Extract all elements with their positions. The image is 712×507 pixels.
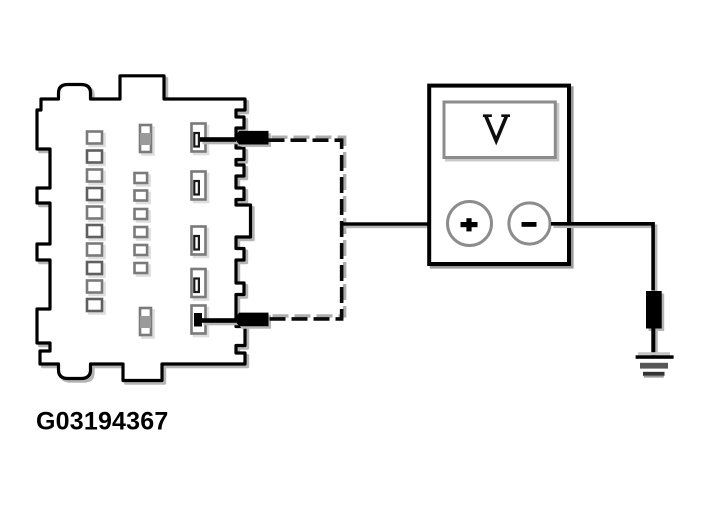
voltmeter positive terminal — [448, 202, 492, 246]
wire from pin R1 to positive probe arrow — [200, 137, 239, 144]
pin M8 (striped) — [140, 308, 154, 338]
dashed jumper wire (top, right, bottom segments) — [269, 137, 345, 319]
pin L8 — [87, 262, 105, 277]
wire from jumper to voltmeter positive terminal — [341, 222, 450, 228]
pin L3 — [87, 170, 105, 185]
pin M6 — [135, 245, 150, 258]
svg-text:G03194367: G03194367 — [36, 408, 168, 436]
pin M2 — [135, 173, 150, 186]
pin M1 (striped) — [140, 125, 154, 155]
pin R5 — [192, 306, 209, 337]
pin L1 — [87, 132, 105, 147]
pin L4 — [87, 188, 105, 203]
pin L10 — [87, 299, 105, 314]
probe arrow at pin R5 — [234, 313, 271, 329]
pin L6 — [87, 225, 105, 240]
probe arrow at pin R1 — [234, 131, 271, 147]
pin M3 — [135, 191, 150, 204]
ground symbol G1 — [636, 352, 674, 377]
pin L9 — [87, 281, 105, 296]
wire from probe to ground symbol — [651, 329, 658, 356]
pin R2 — [192, 172, 209, 203]
voltmeter display window — [444, 102, 558, 160]
connector C1 body outline — [37, 76, 253, 383]
voltmeter M1 case — [429, 86, 571, 267]
pin L5 — [87, 207, 105, 222]
voltmeter V label — [483, 116, 510, 141]
wire from pin R5 to negative probe arrow — [201, 318, 239, 325]
test probe on ground lead — [646, 291, 664, 331]
voltmeter negative terminal — [509, 203, 550, 244]
pin M4 — [135, 209, 150, 222]
pin R4 — [192, 269, 209, 300]
pin L7 — [87, 244, 105, 259]
pin M7 — [135, 263, 150, 276]
wire from negative terminal to ground — [551, 224, 656, 293]
pin R1 — [192, 124, 209, 155]
pin M5 — [135, 227, 150, 240]
pin R3 — [192, 227, 209, 258]
pin L2 — [87, 151, 105, 166]
